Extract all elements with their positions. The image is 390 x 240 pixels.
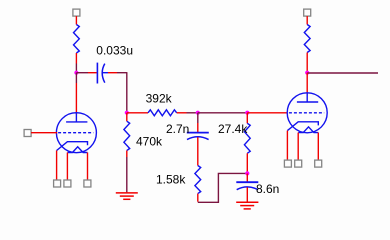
wire node F down to V2 plate: [306, 73, 308, 95]
capacitor C2 2.7n: [187, 133, 209, 140]
svg-text:1.58k: 1.58k: [156, 172, 186, 186]
ground GND1: [116, 193, 138, 199]
ground GND2: [236, 202, 258, 209]
triode V2: [287, 93, 327, 133]
wire V2 heater lead 2: [317, 133, 319, 161]
svg-text:392k: 392k: [146, 92, 173, 106]
svg-text:27.4k: 27.4k: [218, 122, 248, 136]
terminal P2: [304, 9, 311, 16]
wire node A down to V1 plate: [75, 73, 77, 83]
node B junction: [125, 111, 129, 115]
node F junction: [305, 71, 309, 75]
wire V1 heater lead 1: [66, 153, 68, 181]
wire node B to R3: [127, 112, 148, 114]
wire V2 heater lead 1: [297, 133, 299, 161]
terminal P1: [73, 9, 80, 16]
triode V1: [56, 113, 96, 153]
resistor R5 1.58k: [195, 166, 201, 194]
terminal V2 heater pin 2: [315, 160, 322, 167]
svg-text:8.6n: 8.6n: [256, 182, 279, 196]
wire lead R1 top: [75, 16, 77, 24]
node A junction: [74, 71, 78, 75]
wire V1 cathode lead: [56, 151, 58, 181]
node D junction: [245, 111, 249, 115]
resistor R4 470k: [126, 113, 128, 121]
resistor R3 392k: [148, 110, 177, 116]
wire R4 to ground: [126, 151, 128, 158]
resistor R2: [304, 25, 310, 53]
terminal V1 heater pin 2: [84, 180, 91, 187]
wire node E to C3: [246, 173, 248, 182]
wire node C to node D: [198, 112, 248, 114]
wire R6 to node E: [246, 153, 248, 173]
resistor R1: [74, 25, 80, 54]
wire C3 to ground: [246, 187, 248, 202]
wire C2 to R5: [197, 137, 199, 165]
wire R2 to node F: [306, 53, 308, 73]
wire node C down to C2: [197, 113, 199, 123]
wire P3 to V1 grid: [31, 132, 57, 134]
wire node A to C1: [76, 72, 88, 74]
terminal V2 heater pin 1: [295, 160, 302, 167]
terminal P3 grid input: [24, 130, 31, 137]
wire node F to right edge: [307, 72, 378, 74]
wire V2 cathode lead: [286, 131, 288, 161]
terminal V2 cathode pin: [284, 160, 291, 167]
wire R1 to node A: [75, 53, 77, 64]
svg-text:470k: 470k: [136, 134, 163, 148]
wire R3 to node C: [177, 112, 187, 114]
wire lead R2 top: [306, 16, 308, 24]
node E junction: [245, 171, 249, 175]
capacitor C3 8.6n: [236, 182, 258, 190]
resistor R6 27.4k: [246, 113, 248, 124]
wire C1 to corner down to node B: [108, 72, 117, 74]
capacitor C1 0.033u: [97, 63, 108, 84]
wire V1 heater lead 2: [87, 153, 89, 181]
terminal V1 heater pin 1: [64, 180, 71, 187]
wire node D to V2 grid: [247, 112, 287, 114]
svg-text:0.033u: 0.033u: [96, 43, 133, 57]
node C junction: [196, 111, 200, 115]
svg-text:2.7n: 2.7n: [166, 122, 189, 136]
wire R5 to node E jog: [197, 194, 199, 202]
terminal V1 cathode pin: [54, 180, 61, 187]
